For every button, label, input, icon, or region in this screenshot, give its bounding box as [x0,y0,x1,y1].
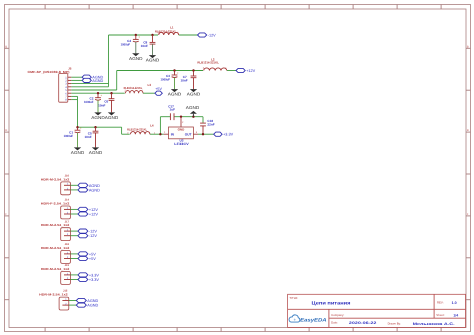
svg-text:AGND: AGND [71,150,85,155]
svg-text:AGND: AGND [89,184,100,188]
svg-text:+: + [138,35,140,39]
svg-text:HDR-F-2.54_1x2: HDR-F-2.54_1x2 [41,201,70,205]
svg-text:10nF: 10nF [180,79,187,83]
svg-text:1000uF: 1000uF [84,100,94,104]
svg-text:RLB1314-221KL: RLB1314-221KL [197,61,219,65]
svg-text:+: + [80,126,82,130]
svg-text:REV:: REV: [437,301,444,305]
svg-text:e: e [294,318,296,322]
svg-text:J18: J18 [65,243,70,246]
svg-text:-12V: -12V [208,34,216,38]
svg-text:1000uF: 1000uF [121,42,131,46]
svg-text:HDR-M-2.54_1x2: HDR-M-2.54_1x2 [41,246,70,250]
svg-text:HDR-M-2.54_1x2: HDR-M-2.54_1x2 [41,223,70,227]
svg-text:Drawn By:: Drawn By: [388,322,402,326]
svg-text:RLB1314-221KL: RLB1314-221KL [155,29,177,33]
svg-text:1.0: 1.0 [452,301,457,305]
svg-text:D: D [467,129,469,132]
svg-text:+5V: +5V [89,257,96,261]
svg-text:J14: J14 [65,199,70,202]
svg-text:Sheet:: Sheet: [436,313,445,317]
svg-text:AGND: AGND [87,299,98,303]
svg-text:AGND: AGND [186,105,200,110]
svg-text:RLB1314-221KL: RLB1314-221KL [124,86,143,90]
svg-text:2020-06-22: 2020-06-22 [349,321,377,325]
svg-text:AGND: AGND [89,188,100,192]
svg-text:Date:: Date: [331,321,338,325]
svg-text:J15: J15 [63,290,68,293]
svg-text:-12V: -12V [89,234,97,238]
svg-text:RLB1314-221KL: RLB1314-221KL [127,127,147,131]
svg-text:+3.3V: +3.3V [223,133,233,137]
svg-text:+12V: +12V [246,69,255,73]
svg-text:AGND: AGND [87,304,98,308]
svg-text:L4: L4 [150,124,154,128]
svg-text:J5: J5 [68,67,72,71]
svg-text:HDR-M-2.54_1x2: HDR-M-2.54_1x2 [39,293,68,297]
svg-text:+12V: +12V [89,208,98,212]
svg-text:B: B [467,45,469,48]
svg-text:D: D [5,129,7,132]
svg-text:J17: J17 [65,220,70,223]
svg-text:HDR-M-2.54_1x2: HDR-M-2.54_1x2 [41,177,70,181]
svg-text:+12V: +12V [89,213,98,217]
svg-text:AGND: AGND [105,115,119,120]
svg-text:10nF: 10nF [98,103,105,107]
svg-text:Company:: Company: [331,313,344,317]
svg-text:-12V: -12V [89,230,97,234]
svg-text:+: + [177,71,179,75]
svg-text:AGND: AGND [89,150,103,155]
svg-text:+3.3V: +3.3V [89,273,99,277]
svg-text:AGND: AGND [129,56,143,61]
svg-text:+5V: +5V [89,252,96,256]
svg-text:TITLE:: TITLE: [289,296,298,300]
svg-text:1000uF: 1000uF [64,134,74,138]
svg-text:OUT: OUT [185,133,192,137]
svg-text:1000uF: 1000uF [161,77,171,81]
svg-text:EasyEDA: EasyEDA [300,318,327,324]
svg-text:22nF: 22nF [207,123,214,127]
svg-text:CMF-6P_(DS1069-8_MP): CMF-6P_(DS1069-8_MP) [28,70,70,74]
svg-text:+: + [100,94,102,98]
svg-text:1uF: 1uF [170,108,176,112]
svg-text:AGND: AGND [146,58,160,63]
svg-text:AGND: AGND [91,115,105,120]
svg-text:L3: L3 [148,83,152,87]
svg-text:B: B [5,45,7,48]
svg-text:Мельников А.С.: Мельников А.С. [413,322,455,326]
svg-text:J19: J19 [65,264,70,267]
svg-text:1/4: 1/4 [453,313,458,317]
svg-text:Цепи питания: Цепи питания [312,300,351,305]
svg-text:AGND: AGND [92,79,103,83]
svg-text:+3.3V: +3.3V [89,278,99,282]
svg-text:AGND: AGND [168,92,182,97]
svg-text:LF33CV: LF33CV [174,142,190,146]
svg-text:10nF: 10nF [141,44,148,48]
svg-text:HDR-M-2.54_1x2: HDR-M-2.54_1x2 [41,267,70,271]
svg-text:+5V: +5V [155,87,162,91]
svg-text:GND: GND [178,128,186,132]
svg-text:10nF: 10nF [84,135,91,139]
svg-text:AGND: AGND [187,92,201,97]
svg-text:J16: J16 [65,175,70,178]
